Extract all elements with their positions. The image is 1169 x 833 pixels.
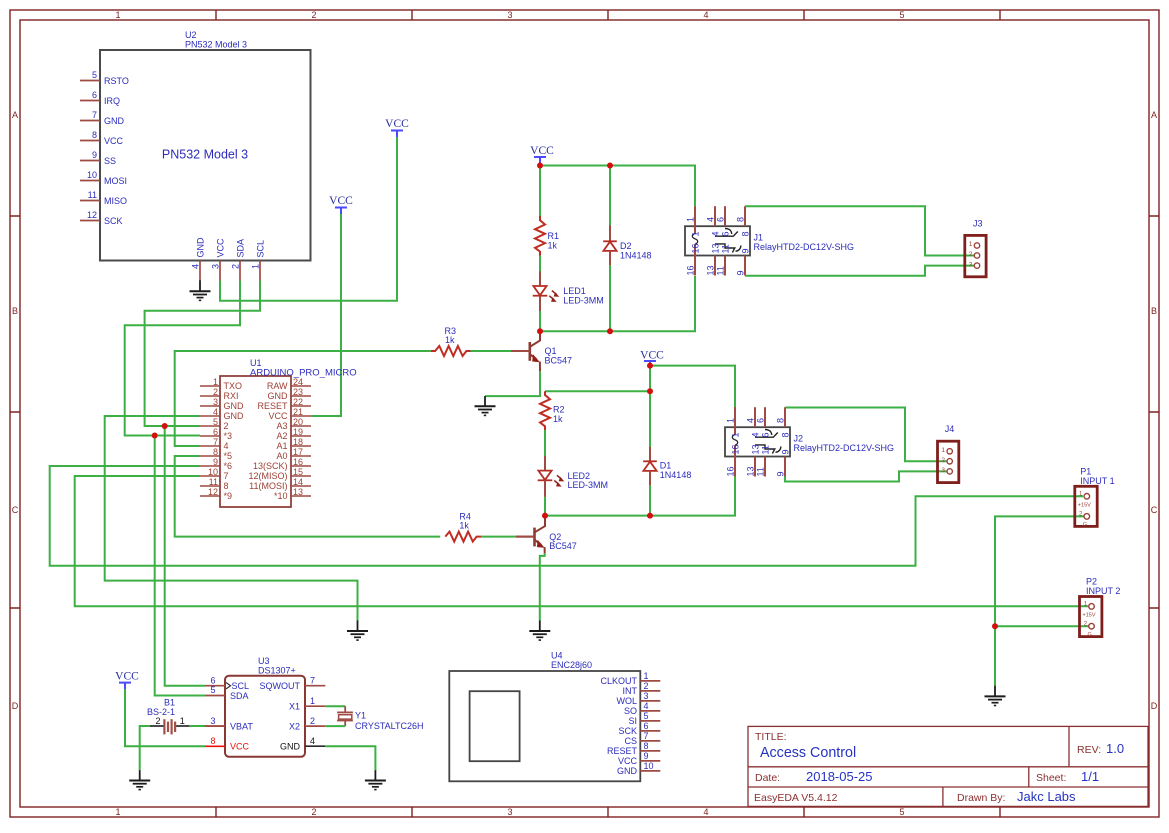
svg-text:LED-3MM: LED-3MM (568, 480, 609, 490)
svg-text:8: 8 (776, 418, 786, 423)
svg-text:5: 5 (92, 70, 97, 80)
svg-text:5: 5 (210, 685, 215, 695)
svg-text:BC547: BC547 (545, 356, 573, 366)
svg-text:ENC28j60: ENC28j60 (551, 660, 592, 670)
junction P2 pin2 / ground net (992, 623, 998, 629)
svg-text:C: C (1151, 505, 1158, 515)
U2 pin 9 SS (80, 150, 116, 166)
U3 pin 4 GND (black) (280, 736, 325, 752)
svg-text:7: 7 (224, 471, 229, 481)
junction VCC/D2 (607, 163, 613, 169)
svg-text:7: 7 (213, 437, 218, 447)
svg-text:A: A (12, 110, 18, 120)
svg-text:PN532 Model 3: PN532 Model 3 (162, 148, 248, 162)
svg-text:9: 9 (781, 449, 791, 454)
resistor R4 1k (445, 511, 481, 541)
wire net VCC: U2 pin3 to VCC flag (220, 137, 397, 301)
svg-text:1k: 1k (459, 521, 469, 531)
diode D2 1N4148 (603, 225, 651, 265)
U1 pin 8 *5 (left) (200, 447, 232, 461)
svg-text:3: 3 (213, 397, 218, 407)
wire net SDA branch to U3 pin 5 (155, 436, 206, 696)
U3 pin 1 X1 (289, 696, 325, 712)
relay J2 RelayHTD2-DC12V-SHG (725, 407, 894, 476)
svg-text:RelayHTD2-DC12V-SHG: RelayHTD2-DC12V-SHG (754, 242, 855, 252)
svg-text:C: C (12, 505, 19, 515)
svg-text:7: 7 (92, 110, 97, 120)
svg-text:RSTO: RSTO (104, 76, 129, 86)
wire R3 right lead to Q1 base (470, 350, 512, 352)
U3 pin 7 SQWOUT (260, 675, 326, 691)
svg-text:10: 10 (87, 170, 97, 180)
svg-text:8: 8 (213, 447, 218, 457)
power flag VCC (above D1) (640, 350, 664, 365)
svg-text:2: 2 (310, 716, 315, 726)
svg-text:*6: *6 (224, 461, 233, 471)
svg-text:REV:: REV: (1077, 744, 1101, 756)
svg-text:1: 1 (115, 10, 120, 20)
U1 pin 3 GND (left) (200, 397, 244, 411)
svg-text:12: 12 (87, 210, 97, 220)
junction collector2/LED2 (542, 513, 548, 519)
svg-text:D: D (12, 701, 19, 711)
svg-text:TITLE:: TITLE: (755, 731, 787, 743)
U4 pin 10 GND (617, 761, 660, 776)
svg-text:ARDUINO_PRO_MICRO: ARDUINO_PRO_MICRO (250, 367, 357, 378)
U2 pin 8 VCC (80, 130, 124, 146)
svg-text:J3: J3 (973, 219, 983, 229)
wire Q2 emitter jog to ground (540, 553, 545, 621)
U2 pin 4 GND (bottom) (191, 237, 206, 280)
svg-text:17: 17 (293, 447, 303, 457)
crystal Y1 CRYSTALTC26H (325, 706, 423, 731)
wire U1 pin9 to P1 pin1 (long net) (50, 466, 1083, 566)
ground for U1 pin 4 net (347, 621, 368, 641)
svg-text:10: 10 (208, 467, 218, 477)
U1 pin 4 GND (left) (200, 407, 244, 421)
U4 pin 3 WOL (616, 691, 660, 706)
resistor R3 1k (431, 326, 471, 356)
svg-text:12(MISO): 12(MISO) (248, 471, 287, 481)
svg-text:1: 1 (726, 418, 736, 423)
svg-text:X1: X1 (289, 702, 300, 712)
svg-text:11(MOSI): 11(MOSI) (249, 481, 287, 491)
wire collector rail Q1 (540, 276, 695, 331)
svg-text:3: 3 (507, 10, 512, 20)
svg-text:VCC: VCC (618, 756, 638, 766)
U2 pin 11 MISO (80, 190, 127, 206)
transistor Q2 BC547 (516, 516, 577, 554)
svg-text:16: 16 (293, 457, 303, 467)
svg-text:9: 9 (92, 150, 97, 160)
svg-text:3: 3 (941, 467, 945, 474)
junction SCL at U1 pin5 row (162, 423, 168, 429)
U1 pin 10 7 (left) (200, 467, 229, 481)
ground for U2 pin 4 (190, 280, 211, 300)
U2 pin 1 SCL (bottom) (251, 240, 266, 281)
svg-text:MISO: MISO (104, 196, 127, 206)
svg-text:15: 15 (293, 467, 303, 477)
svg-text:VCC: VCC (216, 238, 226, 258)
svg-text:SI: SI (628, 716, 637, 726)
power flag VCC (near U3) (115, 671, 139, 689)
svg-text:RAW: RAW (267, 381, 288, 391)
wire R1 bottom to LED1 (539, 255, 541, 271)
svg-text:5: 5 (899, 10, 904, 20)
wire U3 GND to ground (325, 746, 375, 771)
U1 pin 23 GND (right) (268, 387, 312, 401)
U1 pin 20 A3 (right) (276, 417, 311, 431)
diode D1 1N4148 (643, 391, 691, 485)
battery B1 BS-2-1 (147, 698, 189, 735)
svg-text:23: 23 (293, 387, 303, 397)
U1 pin 21 VCC (right) (268, 407, 311, 421)
U3 pin 5 SDA (205, 685, 248, 701)
svg-text:24: 24 (293, 377, 303, 387)
svg-text:1: 1 (691, 231, 701, 236)
svg-text:J4: J4 (945, 424, 955, 434)
svg-text:BC547: BC547 (549, 541, 577, 551)
wire J1 pin9 to J3 pin3 (745, 266, 974, 276)
svg-text:8: 8 (92, 130, 97, 140)
svg-text:CLKOUT: CLKOUT (600, 676, 637, 686)
U4 pin 6 SCK (618, 721, 660, 736)
wire U1 pin8 to R4 / Q2 base (175, 456, 441, 537)
svg-text:11: 11 (761, 445, 771, 454)
svg-text:SDA: SDA (236, 239, 246, 258)
svg-text:1: 1 (969, 241, 973, 248)
svg-text:GND: GND (196, 237, 206, 258)
svg-text:21: 21 (293, 407, 303, 417)
svg-text:13: 13 (706, 265, 716, 275)
svg-text:1N4148: 1N4148 (620, 250, 652, 260)
U2 pin 3 VCC (bottom) (211, 238, 226, 281)
svg-text:VCC: VCC (385, 118, 409, 130)
svg-text:2018-05-25: 2018-05-25 (806, 769, 873, 784)
svg-text:*5: *5 (224, 451, 233, 461)
wire LED2 to collector rail 2 (544, 497, 546, 516)
svg-text:BS-2-1: BS-2-1 (147, 707, 175, 717)
LED LED1 LED-3MM (533, 271, 604, 311)
svg-text:9: 9 (741, 248, 751, 253)
wire Q1 emitter to ground (485, 371, 540, 396)
stub VBAT red (205, 725, 225, 727)
svg-text:1: 1 (251, 264, 261, 269)
svg-text:B: B (12, 306, 18, 316)
wire VCC to R1 top (539, 166, 541, 217)
U1 pin 12 *9 (left) (200, 487, 232, 501)
svg-text:4: 4 (751, 432, 761, 437)
svg-text:2: 2 (213, 387, 218, 397)
power flag VCC (above R1) (530, 145, 554, 163)
U2 pin 2 SDA (bottom) (231, 239, 246, 281)
wire U1 pin4 GND to ground near bottom (105, 416, 358, 621)
U3 pin 3 VBAT (205, 716, 253, 732)
wire red lead into Q1 base (512, 350, 530, 352)
wire collector rail 2 to J2 coil pin16 (545, 477, 735, 516)
U1 pin 13 *10 (right) (274, 487, 311, 501)
U1 pin 9 *6 (left) (200, 457, 232, 471)
svg-text:Drawn By:: Drawn By: (957, 792, 1005, 804)
connector P2 INPUT 2 (1080, 577, 1121, 638)
svg-text:CS: CS (624, 736, 637, 746)
svg-text:13: 13 (751, 444, 761, 454)
svg-text:9: 9 (776, 471, 786, 476)
U2 pin 10 MOSI (80, 170, 127, 186)
svg-text:GND: GND (617, 766, 638, 776)
U1 pin 22 RESET (right) (257, 397, 311, 411)
junction SDA at U1 pin6 row (152, 433, 158, 439)
svg-text:Access Control: Access Control (760, 745, 856, 761)
resistor R1 1k (535, 216, 559, 256)
svg-text:7: 7 (310, 675, 315, 685)
svg-text:1.0: 1.0 (1106, 741, 1124, 756)
svg-text:PN532 Model 3: PN532 Model 3 (185, 40, 247, 50)
svg-text:6: 6 (761, 432, 771, 437)
wire VCC rail to J2 coil pin1 (650, 366, 735, 408)
U4 pin 9 VCC (618, 751, 660, 766)
svg-text:A1: A1 (276, 441, 287, 451)
LED LED2 LED-3MM (538, 456, 608, 497)
wire D2 bottom to rail (609, 265, 611, 331)
svg-text:+15V: +15V (1083, 613, 1096, 619)
svg-text:VCC: VCC (115, 671, 139, 683)
svg-text:1N4148: 1N4148 (660, 470, 692, 480)
svg-text:10: 10 (644, 761, 654, 771)
svg-text:14: 14 (293, 477, 303, 487)
svg-text:5: 5 (899, 807, 904, 817)
svg-text:4: 4 (191, 264, 201, 269)
svg-text:INPUT 2: INPUT 2 (1086, 586, 1120, 596)
wire battery pin2 to ground (140, 726, 150, 771)
svg-text:*9: *9 (224, 491, 233, 501)
svg-text:Jakc Labs: Jakc Labs (1017, 789, 1076, 804)
svg-text:SCL: SCL (256, 240, 266, 258)
svg-text:4: 4 (703, 807, 708, 817)
ground for battery (129, 770, 150, 789)
svg-text:MOSI: MOSI (104, 176, 127, 186)
svg-text:VCC: VCC (268, 411, 288, 421)
svg-text:2: 2 (155, 716, 160, 726)
IC U2 PN532 Model 3 body (100, 30, 311, 261)
svg-text:*3: *3 (224, 431, 233, 441)
svg-text:3: 3 (211, 264, 221, 269)
U1 pin 24 RAW (right) (267, 377, 311, 391)
U2 pin 7 GND (80, 110, 125, 126)
svg-text:A2: A2 (276, 431, 287, 441)
svg-text:3: 3 (210, 716, 215, 726)
svg-text:4: 4 (703, 10, 708, 20)
svg-text:2: 2 (224, 421, 229, 431)
svg-text:A: A (1151, 110, 1157, 120)
svg-text:1: 1 (115, 807, 120, 817)
svg-text:2: 2 (644, 681, 649, 691)
svg-text:RESET: RESET (607, 746, 638, 756)
svg-text:SS: SS (104, 156, 116, 166)
svg-text:4: 4 (310, 736, 315, 746)
svg-text:SCK: SCK (104, 216, 123, 226)
svg-text:4: 4 (706, 217, 716, 222)
U1 pin 1 TXO (left) (200, 377, 242, 391)
U3 pin 8 VCC (red) (205, 736, 249, 752)
U1 pin 19 A2 (right) (276, 427, 311, 441)
svg-text:2: 2 (969, 251, 973, 258)
svg-text:8: 8 (644, 741, 649, 751)
IC U3 DS1307+ body (225, 656, 305, 757)
wire J2 pin8 to J4 pin2 (785, 408, 947, 462)
svg-text:GND: GND (224, 401, 245, 411)
svg-text:6: 6 (92, 90, 97, 100)
svg-text:SO: SO (624, 706, 637, 716)
svg-text:RESET: RESET (257, 401, 288, 411)
svg-text:3: 3 (507, 807, 512, 817)
svg-text:4: 4 (224, 441, 229, 451)
U1 pin 14 11(MOSI) (right) (249, 477, 311, 491)
wire U1 pin7 to R3 / Q1 base (175, 351, 431, 446)
svg-text:GND: GND (104, 116, 125, 126)
svg-text:16: 16 (686, 265, 696, 275)
resistor R2 1k (540, 391, 565, 430)
svg-text:2: 2 (231, 264, 241, 269)
svg-text:3: 3 (644, 691, 649, 701)
svg-text:22: 22 (293, 397, 303, 407)
wire VCC down to R2 rail (649, 364, 651, 391)
U1 pin 6 *3 (left) (200, 427, 232, 441)
svg-text:SDA: SDA (230, 691, 249, 701)
svg-text:VCC: VCC (104, 136, 124, 146)
svg-text:1k: 1k (445, 335, 455, 345)
connector J3 (965, 219, 986, 277)
U1 pin 11 8 (left) (200, 477, 229, 491)
power flag VCC (mid-left, net to U1 pin 21) (329, 195, 353, 214)
svg-text:4: 4 (213, 407, 218, 417)
svg-text:RelayHTD2-DC12V-SHG: RelayHTD2-DC12V-SHG (794, 443, 895, 453)
wire VCC to D2 top (609, 166, 611, 226)
wire LED1 to collector rail (539, 311, 541, 331)
svg-text:3: 3 (969, 261, 973, 268)
svg-text:2: 2 (311, 10, 316, 20)
svg-text:6: 6 (644, 721, 649, 731)
svg-text:GND: GND (280, 742, 301, 752)
svg-text:2: 2 (311, 807, 316, 817)
svg-text:IRQ: IRQ (104, 96, 120, 106)
svg-text:G: G (1088, 632, 1092, 638)
junction R2 rail / D1 (647, 388, 653, 394)
wire net VCC: flag to U1 pin 21 (311, 214, 341, 416)
wire VCC flag to U3 pin 8 (125, 689, 205, 746)
wire VCC rail to J1 coil pin1 (540, 164, 695, 207)
svg-text:X2: X2 (289, 721, 300, 731)
svg-text:VCC: VCC (640, 350, 664, 362)
wire battery pin1 to U3 VBAT (189, 725, 205, 727)
wire D1 bottom to rail 2 (649, 485, 651, 515)
svg-text:D: D (1151, 701, 1158, 711)
svg-text:GND: GND (224, 411, 245, 421)
svg-text:1/1: 1/1 (1081, 769, 1099, 784)
svg-text:11: 11 (716, 266, 726, 275)
svg-text:9: 9 (213, 457, 218, 467)
svg-text:VBAT: VBAT (230, 721, 253, 731)
svg-text:1: 1 (941, 447, 945, 454)
wire net SDA: U2 pin2 to U1 pin6 (125, 280, 240, 435)
svg-text:INT: INT (623, 686, 638, 696)
svg-text:6: 6 (210, 675, 215, 685)
svg-text:8: 8 (736, 217, 746, 222)
svg-text:8: 8 (781, 432, 791, 437)
svg-text:12: 12 (208, 487, 218, 497)
svg-text:U2: U2 (185, 30, 197, 40)
svg-text:1: 1 (180, 716, 185, 726)
wire R2 bottom to LED2 (544, 430, 546, 456)
junction collector/D2 (607, 328, 613, 334)
svg-text:1k: 1k (553, 414, 563, 424)
svg-text:B: B (1151, 306, 1157, 316)
svg-text:18: 18 (293, 437, 303, 447)
svg-text:1k: 1k (548, 241, 558, 251)
svg-text:+15V: +15V (1078, 503, 1091, 509)
U4 pin 8 RESET (607, 741, 660, 756)
svg-text:4: 4 (711, 231, 721, 236)
svg-text:1: 1 (731, 432, 741, 437)
svg-text:1: 1 (686, 217, 696, 222)
svg-text:1: 1 (310, 696, 315, 706)
U2 pin 6 IRQ (80, 90, 120, 106)
svg-text:GND: GND (268, 391, 289, 401)
wire R4 right lead to Q2 base (481, 536, 516, 538)
svg-text:5: 5 (644, 711, 649, 721)
U4 pin 7 CS (624, 731, 660, 746)
svg-text:8: 8 (210, 736, 215, 746)
U4 pin 2 INT (623, 681, 661, 696)
wire net SCL: U2 pin1 to U1 pin5 (145, 280, 260, 426)
svg-text:VCC: VCC (230, 742, 250, 752)
svg-text:SQWOUT: SQWOUT (260, 681, 301, 691)
U2 pin 5 RSTO (80, 70, 129, 86)
svg-text:TXO: TXO (224, 381, 243, 391)
svg-text:LED-3MM: LED-3MM (563, 295, 604, 305)
svg-text:1: 1 (213, 377, 218, 387)
svg-text:16: 16 (691, 243, 701, 253)
junction VCC/J2 rail (647, 363, 653, 369)
wire rail to R2 top (545, 390, 650, 392)
svg-text:20: 20 (293, 417, 303, 427)
ground at Q2 emitter (529, 621, 550, 641)
svg-text:RXI: RXI (224, 391, 239, 401)
wire U1 pin10 to P2 pin1 (long net) (75, 476, 1088, 606)
svg-text:*10: *10 (274, 491, 288, 501)
relay J1 RelayHTD2-DC12V-SHG (685, 206, 854, 275)
svg-text:13: 13 (746, 466, 756, 476)
svg-text:A0: A0 (276, 451, 287, 461)
svg-text:6: 6 (721, 231, 731, 236)
wire junction to P2 pin2 (995, 625, 1089, 627)
wire net SCL branch to U3 pin 6 (165, 426, 206, 686)
TITLE BLOCK (748, 726, 1148, 806)
svg-text:13: 13 (711, 243, 721, 253)
svg-text:VCC: VCC (530, 145, 554, 157)
svg-text:SCL: SCL (232, 681, 250, 691)
svg-text:9: 9 (736, 270, 746, 275)
wire P1 pin2 to P2 pin2 and ground (995, 516, 1084, 686)
svg-text:4: 4 (644, 701, 649, 711)
connector J4 (938, 424, 959, 483)
svg-text:1: 1 (644, 671, 649, 681)
svg-text:Y1: Y1 (355, 711, 366, 721)
U1 pin 5 2 (left) (200, 417, 229, 431)
U2 pin 12 SCK (80, 210, 123, 226)
U1 pin 7 4 (left) (200, 437, 229, 451)
wire J1 pin8 to J3 pin2 (745, 206, 974, 255)
